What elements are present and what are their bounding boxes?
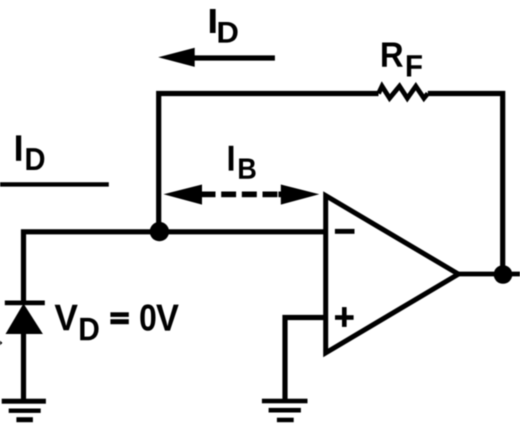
- label ID (left current label): [16, 135, 44, 170]
- wire: non-inverting input to ground: [285, 318, 326, 400]
- minus sign (inverting input): [335, 229, 355, 234]
- current arrow ID (top, pointing left): [158, 48, 275, 67]
- cut-off mark at left edge: [0, 341, 2, 346]
- label IB: [229, 146, 256, 179]
- label ID (top current label): [210, 9, 238, 43]
- wire: feedback top horizontal right segment + right vertical: [428, 94, 503, 275]
- wire: output from apex to right edge: [456, 272, 520, 277]
- line under left ID label: [0, 182, 109, 186]
- ground (diode): [2, 399, 46, 423]
- plus sign (non-inverting input): [335, 307, 354, 327]
- op-amp U1 triangle: [326, 196, 459, 353]
- label RF: [382, 43, 422, 77]
- wire: inverting input horizontal + diode branch vertical top: [24, 232, 327, 301]
- arrow IB (dashed double-headed): [164, 185, 320, 205]
- node: output dot: [494, 265, 513, 284]
- label VD = 0V: [55, 304, 179, 340]
- wire: diode to ground: [21, 334, 26, 399]
- diode D1 (triangle, pointing up to cathode): [6, 304, 43, 335]
- node: junction dot at inverting input: [150, 222, 169, 241]
- resistor RF: [379, 86, 428, 98]
- wire: feedback left vertical + top horizontal left segment: [159, 94, 379, 233]
- ground (non-inverting input): [262, 399, 308, 423]
- diode D1 (cathode bar): [5, 301, 45, 306]
